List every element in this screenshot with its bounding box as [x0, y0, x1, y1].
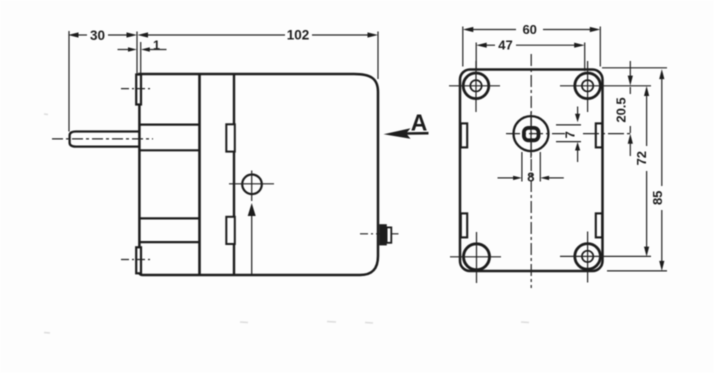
svg-text:102: 102	[287, 28, 310, 43]
svg-text:47: 47	[498, 38, 512, 53]
svg-text:60: 60	[522, 22, 536, 37]
svg-text:85: 85	[650, 191, 665, 205]
svg-text:20.5: 20.5	[613, 97, 628, 122]
svg-text:8: 8	[527, 169, 534, 184]
svg-text:A: A	[411, 110, 428, 136]
svg-text:1: 1	[153, 38, 160, 52]
svg-text:72: 72	[634, 151, 649, 165]
svg-text:30: 30	[90, 28, 105, 43]
svg-text:7: 7	[562, 131, 577, 138]
